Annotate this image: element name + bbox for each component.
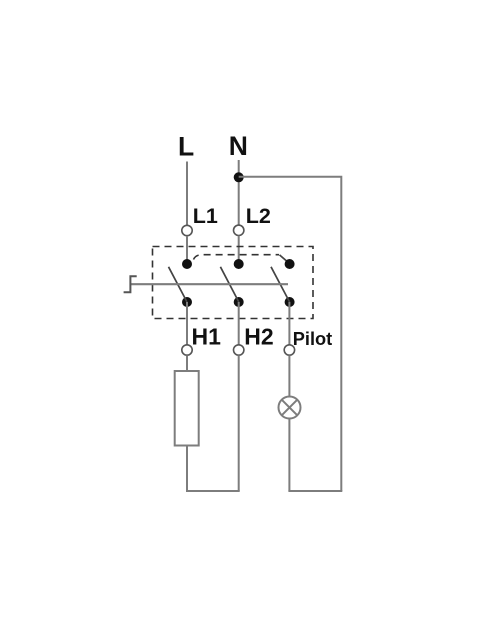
svg-text:N: N	[229, 131, 248, 161]
svg-text:L2: L2	[246, 204, 271, 228]
svg-text:Pilot: Pilot	[293, 329, 332, 349]
svg-text:L1: L1	[193, 204, 218, 228]
svg-text:L: L	[178, 132, 194, 162]
svg-text:H1: H1	[192, 324, 222, 350]
svg-text:H2: H2	[244, 324, 273, 350]
